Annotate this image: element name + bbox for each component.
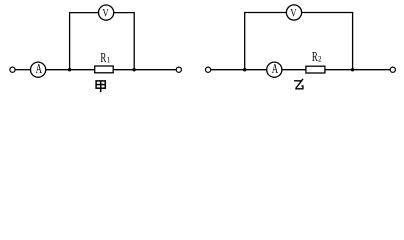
wire T1 to ammeter A [15,69,31,71]
node N2 junction [133,68,136,71]
ammeter A (circuit 甲) [30,62,45,77]
svg-text:V: V [102,8,109,20]
node N3 junction [243,68,246,71]
label 甲 (circuit name) [96,81,105,92]
terminal T3 left (circuit 乙) [206,67,211,72]
svg-text:A: A [36,62,43,76]
wire vertical node N3 up to top rail [244,13,246,70]
wire ammeter A to node N1 [46,69,70,71]
ammeter A (circuit 乙) [267,62,282,77]
wire T3 to node N3 [211,69,245,71]
wire node N2 to terminal T2 [134,69,176,71]
wire top rail left to voltmeter V [69,12,99,14]
wire node N3 to ammeter A [245,69,267,71]
wire top rail left to voltmeter V [244,12,286,14]
terminal T1 left (circuit 甲) [10,67,15,72]
svg-text:R: R [100,51,106,65]
svg-text:A: A [272,62,279,76]
wire vertical node N1 up to top rail [69,13,71,70]
resistor R2 [306,66,325,73]
voltmeter V (circuit 甲) [99,5,114,20]
label R1 [100,51,110,65]
label R2 [312,50,322,64]
wire node N1 to resistor R1 [70,69,95,71]
svg-text:2: 2 [318,54,322,64]
wire ammeter A to resistor R2 [282,69,306,71]
node N4 junction [351,68,354,71]
wire voltmeter V to top rail right [302,12,354,14]
label 乙 (circuit name) [295,79,303,88]
wire resistor R1 to node N2 [113,69,134,71]
terminal T2 right (circuit 甲) [176,67,181,72]
wire voltmeter V to top rail right [114,12,135,14]
wire vertical top rail down to node N4 [352,13,354,70]
voltmeter V (circuit 乙) [286,5,301,20]
wire vertical top rail down to node N2 [133,13,135,70]
node N1 junction [68,68,71,71]
wire node N4 to terminal T4 [353,69,391,71]
terminal T4 right (circuit 乙) [390,67,395,72]
resistor R1 [95,66,114,73]
svg-text:1: 1 [107,55,111,65]
wire resistor R2 to node N4 [325,69,353,71]
svg-text:V: V [290,8,297,20]
